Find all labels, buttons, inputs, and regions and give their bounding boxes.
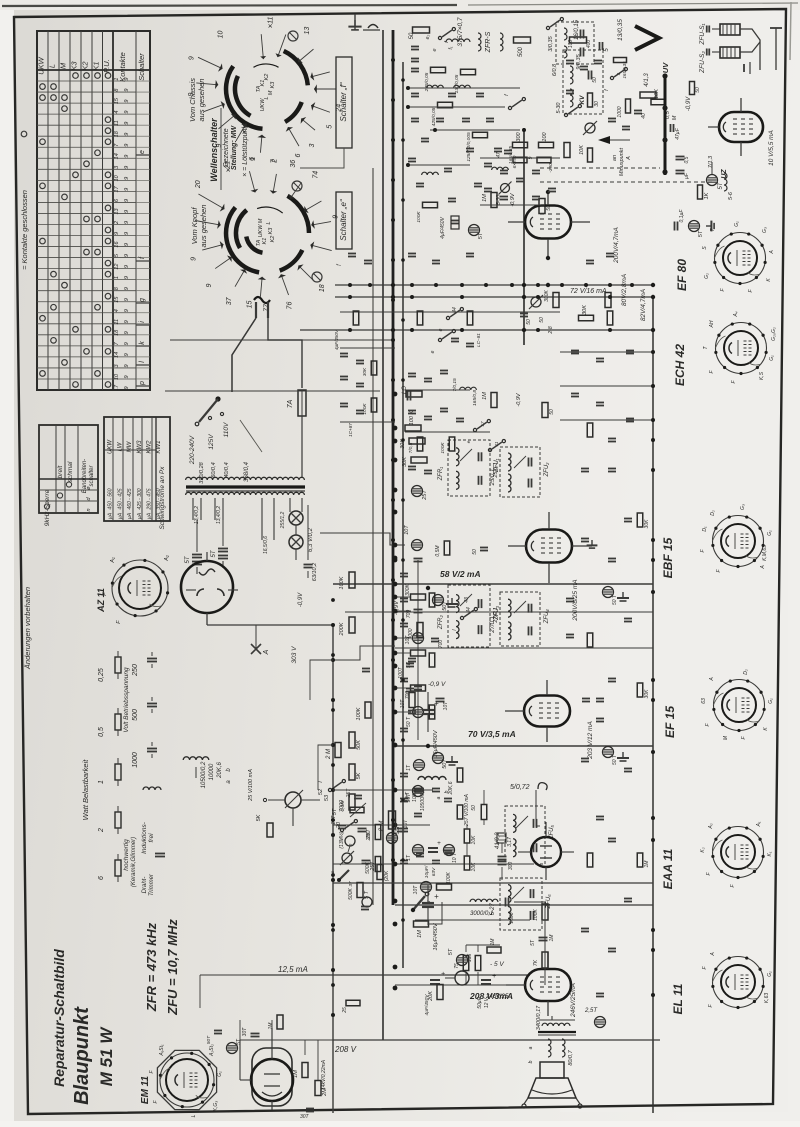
svg-text:0,1µF: 0,1µF [679, 209, 685, 223]
svg-text:9: 9 [124, 155, 130, 158]
svg-text:9: 9 [124, 331, 130, 334]
svg-text:9: 9 [124, 199, 130, 202]
svg-text:3: 3 [309, 143, 316, 147]
svg-text:Wellenschalter: Wellenschalter [209, 118, 219, 182]
svg-text:ZFU₆: ZFU₆ [546, 894, 552, 910]
svg-text:63/10,2: 63/10,2 [312, 563, 318, 581]
svg-text:µF: µF [684, 172, 690, 179]
svg-text:UKW: UKW [37, 56, 46, 74]
svg-text:15: 15 [246, 300, 253, 308]
svg-text:30T: 30T [242, 1027, 248, 1037]
svg-text:ZFR = 473 kHz: ZFR = 473 kHz [144, 922, 159, 1012]
svg-text:2 M: 2 M [378, 820, 385, 832]
svg-text:1C+87: 1C+87 [348, 423, 353, 437]
svg-text:1: 1 [250, 157, 257, 161]
svg-text:53: 53 [324, 794, 330, 801]
svg-text:16µF/450V: 16µF/450V [433, 729, 439, 757]
svg-text:2-8: 2-8 [548, 326, 554, 334]
svg-text:425 - 300: 425 - 300 [137, 488, 143, 509]
svg-text:14: 14 [114, 352, 120, 358]
svg-text:EAA 11: EAA 11 [661, 848, 675, 889]
svg-text:30K: 30K [402, 457, 408, 467]
svg-text:g: g [139, 298, 146, 302]
svg-text:100T: 100T [398, 666, 404, 678]
svg-text:208 V: 208 V [334, 1045, 357, 1054]
svg-text:-390: -390 [548, 163, 553, 173]
svg-text:15: 15 [114, 97, 120, 104]
svg-text:-0,9V: -0,9V [686, 96, 692, 111]
svg-text:5T: 5T [698, 230, 704, 237]
svg-text:10000: 10000 [209, 763, 215, 780]
svg-text:e₂: e₂ [425, 35, 431, 40]
svg-text:e: e [466, 440, 471, 443]
svg-text:3,17: 3,17 [507, 837, 513, 847]
svg-text:74: 74 [312, 171, 319, 179]
svg-text:× = Lötstützpunkt: × = Lötstützpunkt [242, 122, 249, 177]
svg-text:9: 9 [191, 257, 198, 261]
svg-text:ZFU₄: ZFU₄ [544, 609, 550, 625]
svg-text:375/7×0,7: 375/7×0,7 [457, 17, 464, 46]
svg-text:Änderungen vorbehalten: Änderungen vorbehalten [23, 587, 32, 670]
svg-text:25T: 25T [346, 788, 352, 799]
svg-text:-0,9V: -0,9V [394, 600, 400, 615]
svg-text:50: 50 [472, 549, 478, 555]
svg-text:300: 300 [516, 131, 522, 141]
svg-text:290 - 475: 290 - 475 [147, 488, 153, 510]
svg-text:K₁: K₁ [767, 851, 773, 856]
svg-text:M: M [268, 90, 274, 95]
svg-text:5: 5 [326, 125, 333, 129]
svg-text:EL 11: EL 11 [671, 983, 685, 1014]
svg-text:5K: 5K [256, 814, 262, 821]
svg-text:M: M [672, 115, 678, 120]
svg-text:K,63: K,63 [764, 993, 770, 1004]
svg-text:9: 9 [124, 210, 130, 213]
svg-text:frei: frei [148, 833, 155, 843]
svg-text:M: M [59, 62, 68, 69]
svg-text:L: L [191, 1114, 197, 1117]
svg-text:50 T: 50 T [406, 716, 412, 727]
svg-text:10K: 10K [579, 145, 585, 155]
svg-text:-0,9V: -0,9V [516, 392, 522, 406]
svg-text:µA: µA [127, 512, 133, 519]
svg-text:1K: 1K [704, 192, 710, 199]
svg-text:Schalter „f“: Schalter „f“ [339, 82, 348, 121]
svg-text:43: 43 [464, 597, 470, 603]
svg-text:12,5 mA: 12,5 mA [278, 965, 308, 974]
svg-text:f₁: f₁ [448, 46, 454, 49]
svg-text:17: 17 [114, 384, 120, 391]
svg-text:10T: 10T [404, 525, 410, 535]
svg-text:500: 500 [518, 46, 524, 57]
svg-text:EBF 15: EBF 15 [661, 537, 675, 578]
svg-text:20K,6: 20K,6 [217, 762, 223, 779]
svg-text:10T: 10T [403, 819, 409, 829]
svg-text:5T: 5T [332, 808, 338, 815]
svg-text:30K: 30K [362, 367, 368, 376]
svg-text:9: 9 [124, 232, 130, 235]
svg-text:9: 9 [206, 283, 213, 287]
svg-text:an: an [612, 155, 618, 161]
svg-text:3400/0,17: 3400/0,17 [536, 1005, 542, 1030]
svg-text:µA: µA [108, 512, 114, 519]
svg-text:1M: 1M [549, 934, 555, 942]
svg-text:K1: K1 [262, 238, 268, 245]
svg-text:25/0,1: 25/0,1 [490, 469, 496, 487]
svg-text:D₂: D₂ [710, 510, 716, 516]
svg-text:9: 9 [124, 111, 130, 114]
svg-text:+: + [441, 971, 445, 978]
svg-text:7A: 7A [287, 399, 294, 408]
svg-text:1000: 1000 [132, 752, 139, 768]
svg-text:40: 40 [641, 113, 647, 119]
svg-text:165/0,8: 165/0,8 [472, 390, 478, 406]
svg-text:1M: 1M [490, 938, 496, 946]
svg-text:UKW: UKW [108, 439, 114, 454]
svg-text:20K: 20K [366, 831, 372, 842]
svg-text:KW3: KW3 [137, 440, 143, 454]
svg-text:ZFR-S: ZFR-S [485, 31, 492, 53]
svg-text:L: L [266, 221, 272, 224]
svg-text:= Kontakte geschlossen: = Kontakte geschlossen [20, 190, 29, 270]
svg-text:30T: 30T [300, 1114, 310, 1120]
svg-text:(Keramik,Glimmer): (Keramik,Glimmer) [131, 837, 137, 887]
svg-text:µA: µA [147, 512, 153, 519]
svg-text:10K: 10K [471, 835, 477, 845]
svg-text:G₁: G₁ [217, 1071, 223, 1077]
svg-text:schalter: schalter [89, 464, 95, 486]
svg-text:A: A [626, 156, 632, 161]
svg-text:A: A [710, 952, 716, 957]
svg-text:250: 250 [132, 664, 139, 677]
svg-text:10: 10 [114, 174, 120, 181]
svg-text:K,S: K,S [759, 371, 765, 380]
svg-text:A: A [709, 677, 715, 682]
svg-text:80/0,7: 80/0,7 [568, 1049, 574, 1065]
svg-text:9: 9 [124, 100, 130, 103]
svg-text:220-240V: 220-240V [189, 435, 196, 465]
svg-text:50: 50 [471, 805, 477, 811]
svg-text:1M: 1M [482, 194, 488, 202]
svg-text:breit: breit [57, 464, 64, 478]
svg-text:450 - 425: 450 - 425 [117, 488, 123, 509]
svg-text:K,M,63: K,M,63 [762, 545, 768, 561]
svg-text:5-30: 5-30 [556, 102, 562, 114]
svg-text:16µF/450V: 16µF/450V [433, 922, 439, 950]
svg-text:Reparatur-Schaltbild: Reparatur-Schaltbild [51, 949, 67, 1087]
svg-text:Draht-: Draht- [142, 877, 148, 894]
svg-text:100K: 100K [440, 442, 446, 454]
svg-text:9: 9 [124, 221, 130, 224]
svg-text:KV: KV [579, 95, 586, 105]
svg-text:D₂: D₂ [743, 669, 749, 675]
svg-text:10T: 10T [413, 885, 419, 895]
svg-text:10000: 10000 [412, 788, 418, 802]
svg-text:500K: 500K [365, 862, 371, 874]
svg-text:500K: 500K [348, 888, 354, 900]
svg-text:257 V/100 mA: 257 V/100 mA [464, 793, 470, 826]
svg-text:G₁: G₁ [734, 221, 740, 227]
svg-text:UKW: UKW [260, 98, 266, 112]
svg-text:10T: 10T [443, 701, 449, 711]
svg-text:11: 11 [114, 319, 120, 325]
svg-text:27/0,1: 27/0,1 [490, 616, 496, 634]
svg-text:A: A [263, 649, 270, 655]
svg-text:7K: 7K [533, 959, 539, 966]
svg-text:hochwertig: hochwertig [123, 839, 130, 871]
svg-text:K3: K3 [268, 227, 274, 235]
svg-text:9: 9 [124, 133, 130, 136]
svg-text:11: 11 [114, 120, 120, 126]
svg-text:200V/4,7mA: 200V/4,7mA [613, 227, 620, 264]
svg-text:30K: 30K [582, 305, 588, 315]
svg-text:9: 9 [124, 298, 130, 301]
svg-text:D₁: D₁ [702, 526, 708, 532]
svg-text:e: e [438, 328, 444, 331]
svg-text:7/1,3: 7/1,3 [708, 155, 714, 168]
svg-text:400: 400 [586, 40, 592, 49]
svg-text:A₁: A₁ [110, 557, 116, 564]
svg-text:50: 50 [695, 87, 701, 93]
svg-text:5/0,72: 5/0,72 [510, 784, 530, 791]
svg-text:63: 63 [701, 698, 707, 704]
svg-text:7: 7 [710, 228, 716, 231]
svg-text:ZFU-S₁: ZFU-S₁ [699, 23, 706, 45]
svg-text:1M: 1M [268, 1022, 274, 1030]
svg-text:MW: MW [127, 440, 133, 452]
svg-text:K2: K2 [81, 61, 90, 71]
svg-text:3000/0,1: 3000/0,1 [470, 911, 493, 917]
svg-text:9: 9 [124, 342, 130, 345]
svg-text:K2: K2 [270, 236, 276, 243]
svg-text:G₁: G₁ [767, 971, 773, 977]
svg-text:12: 12 [114, 264, 120, 270]
svg-text:AH: AH [709, 320, 715, 328]
svg-text:Blaupunkt: Blaupunkt [71, 1006, 93, 1105]
svg-text:13: 13 [114, 207, 120, 214]
svg-text:9: 9 [124, 287, 130, 290]
svg-text:4/1,3: 4/1,3 [644, 73, 650, 87]
svg-text:50: 50 [549, 409, 555, 415]
svg-text:EF 15: EF 15 [663, 706, 677, 738]
svg-text:47: 47 [496, 152, 502, 158]
svg-text:K2: K2 [264, 74, 270, 81]
svg-text:0,5: 0,5 [684, 156, 690, 163]
svg-text:e: e [432, 48, 438, 51]
svg-text:4: 4 [114, 111, 120, 114]
svg-text:30K: 30K [644, 689, 650, 699]
svg-text:1500: 1500 [509, 912, 515, 923]
svg-text:-0,9 V: -0,9 V [428, 681, 446, 688]
svg-text:µA: µA [137, 512, 143, 519]
svg-text:1M: 1M [293, 1070, 299, 1078]
svg-text:9: 9 [124, 188, 130, 191]
svg-text:1M: 1M [644, 860, 650, 868]
svg-text:30: 30 [594, 101, 600, 107]
svg-text:255/1,2: 255/1,2 [280, 511, 286, 529]
svg-text:ZFR₂: ZFR₂ [438, 615, 444, 631]
svg-text:a: a [528, 1046, 534, 1049]
svg-text:5T: 5T [478, 232, 484, 239]
svg-text:A₁: A₁ [756, 821, 762, 827]
svg-text:300: 300 [508, 862, 514, 871]
svg-text:A₂: A₂ [708, 823, 714, 829]
svg-text:aus gesehen: aus gesehen [199, 205, 208, 248]
svg-text:50: 50 [539, 317, 545, 323]
svg-text:A₂: A₂ [164, 554, 170, 562]
svg-text:450 - 560: 450 - 560 [108, 488, 114, 509]
svg-text:(20K: (20K [384, 870, 390, 881]
svg-text:+: + [434, 892, 439, 901]
svg-text:100K: 100K [339, 576, 345, 589]
svg-text:0,5: 0,5 [98, 727, 105, 737]
svg-text:9: 9 [124, 320, 130, 323]
svg-text:18: 18 [114, 329, 120, 336]
svg-text:12 V: 12 V [484, 997, 490, 1008]
svg-text:50: 50 [526, 319, 532, 325]
svg-text:-0,9V: -0,9V [298, 592, 304, 607]
svg-text:µA: µA [117, 512, 123, 519]
svg-text:125/7,2/0,005: 125/7,2/0,005 [466, 132, 472, 162]
svg-text:0,25: 0,25 [98, 668, 105, 682]
svg-text:b: b [528, 1060, 534, 1063]
svg-text:UKW: UKW [258, 224, 264, 238]
svg-text:e: e [331, 870, 336, 873]
svg-text:+: + [437, 840, 441, 847]
svg-text:G₂: G₂ [704, 273, 710, 279]
svg-text:52: 52 [318, 789, 324, 795]
svg-text:6/0,8: 6/0,8 [552, 63, 558, 76]
svg-text:200K: 200K [339, 622, 345, 636]
svg-text:9: 9 [124, 375, 130, 378]
svg-text:13: 13 [304, 27, 311, 35]
svg-text:18: 18 [114, 130, 120, 137]
svg-text:165/0,35: 165/0,35 [622, 61, 627, 79]
svg-text:9: 9 [124, 177, 130, 180]
svg-text:9: 9 [124, 144, 130, 147]
svg-text:20K: 20K [428, 991, 434, 1002]
svg-text:ZFU₂: ZFU₂ [544, 462, 550, 478]
svg-text:44: 44 [466, 607, 472, 613]
svg-text:10K: 10K [654, 89, 660, 99]
svg-text:5T: 5T [448, 948, 454, 955]
svg-text:50: 50 [409, 32, 415, 39]
svg-text:e: e [430, 350, 436, 353]
svg-text:37: 37 [226, 296, 233, 305]
svg-text:47µF: 47µF [675, 127, 681, 139]
svg-text:100K: 100K [416, 211, 422, 223]
svg-text:0,5M: 0,5M [435, 545, 441, 557]
svg-text:LW: LW [117, 441, 123, 451]
svg-text:5-6: 5-6 [728, 191, 734, 200]
svg-text:Gezeichnete: Gezeichnete [223, 128, 230, 167]
svg-text:9: 9 [114, 232, 120, 235]
svg-text:50: 50 [592, 77, 598, 83]
svg-text:50T: 50T [206, 1035, 212, 1044]
svg-text:11: 11 [267, 17, 274, 24]
svg-text:300K: 300K [544, 290, 550, 302]
svg-text:AZ 11: AZ 11 [96, 588, 106, 613]
svg-text:9: 9 [124, 364, 130, 367]
svg-text:203 V/12 mA: 203 V/12 mA [587, 721, 594, 760]
svg-text:17: 17 [480, 421, 485, 427]
svg-text:G₂₀G₂: G₂₀G₂ [771, 327, 777, 341]
svg-text:EM 11: EM 11 [140, 1075, 151, 1104]
svg-text:Minuspunkt: Minuspunkt [619, 147, 625, 176]
svg-text:10 V/5,5 mA: 10 V/5,5 mA [768, 130, 775, 166]
svg-text:p: p [139, 381, 146, 386]
svg-text:G₁: G₁ [767, 530, 773, 536]
svg-text:82V/4,7mA: 82V/4,7mA [640, 289, 647, 321]
svg-text:2,5T: 2,5T [584, 1008, 598, 1014]
svg-text:L: L [48, 64, 57, 68]
svg-text:5T: 5T [236, 1038, 242, 1045]
svg-text:100K: 100K [446, 872, 452, 884]
svg-text:100K: 100K [362, 403, 368, 415]
svg-text:Vom Chassis: Vom Chassis [188, 78, 197, 122]
svg-text:schmal: schmal [67, 461, 74, 482]
svg-text:1: 1 [114, 78, 120, 81]
svg-text:10: 10 [114, 373, 120, 380]
svg-text:500: 500 [132, 709, 139, 721]
svg-text:9: 9 [124, 89, 130, 92]
svg-text:Schalter: Schalter [137, 53, 146, 81]
svg-text:130/0,05: 130/0,05 [454, 74, 460, 93]
svg-text:16: 16 [114, 241, 120, 248]
svg-text:100: 100 [568, 40, 574, 49]
svg-text:e: e [139, 150, 146, 154]
svg-text:K1: K1 [92, 61, 101, 70]
svg-text:50T: 50T [442, 759, 448, 769]
svg-text:k: k [139, 341, 146, 345]
svg-text:125V: 125V [208, 434, 215, 450]
svg-text:14kV/0,22mA: 14kV/0,22mA [321, 1059, 327, 1090]
svg-text:5 T: 5 T [364, 890, 370, 899]
svg-text:10 T: 10 T [452, 852, 458, 863]
svg-text:37: 37 [348, 881, 354, 887]
svg-text:K1: K1 [260, 80, 266, 87]
svg-text:200V/8/25 mA: 200V/8/25 mA [572, 579, 579, 621]
svg-text:Watt Belastbarkeit: Watt Belastbarkeit [81, 759, 90, 821]
svg-text:Trimmer: Trimmer [149, 873, 155, 896]
svg-text:ZFR₁: ZFR₁ [438, 467, 444, 482]
svg-text:10500/0,2: 10500/0,2 [201, 761, 207, 788]
svg-text:Vom Knopf: Vom Knopf [190, 207, 199, 245]
svg-text:25 V/100 mA: 25 V/100 mA [248, 769, 254, 802]
svg-text:6,3 V/0,2: 6,3 V/0,2 [308, 527, 314, 552]
svg-text:Kontakte: Kontakte [118, 52, 127, 82]
svg-text:(13M½): (13M½) [338, 831, 345, 849]
svg-text:KW1: KW1 [156, 440, 162, 453]
svg-text:72 V/16 mA: 72 V/16 mA [570, 288, 607, 295]
svg-text:M 51 W: M 51 W [97, 1026, 116, 1087]
svg-text:10T: 10T [400, 699, 406, 709]
svg-text:LС−81: LС−81 [476, 333, 481, 347]
svg-text:6: 6 [98, 876, 105, 880]
svg-text:+: + [492, 973, 496, 980]
svg-text:aus gesehen: aus gesehen [197, 79, 206, 122]
svg-text:- 5 V: - 5 V [490, 961, 504, 968]
svg-text:Schalter „e“: Schalter „e“ [339, 199, 348, 241]
svg-text:10µF/: 10µF/ [424, 865, 430, 878]
svg-text:a: a [436, 796, 442, 799]
svg-text:A₁St₁: A₁St₁ [159, 1044, 165, 1057]
svg-text:1M: 1M [482, 392, 488, 400]
svg-text:2 M: 2 M [326, 749, 332, 760]
svg-text:4µF/450V: 4µF/450V [334, 329, 339, 350]
svg-text:5K: 5K [356, 772, 362, 779]
svg-text:13/0,35: 13/0,35 [617, 19, 624, 41]
